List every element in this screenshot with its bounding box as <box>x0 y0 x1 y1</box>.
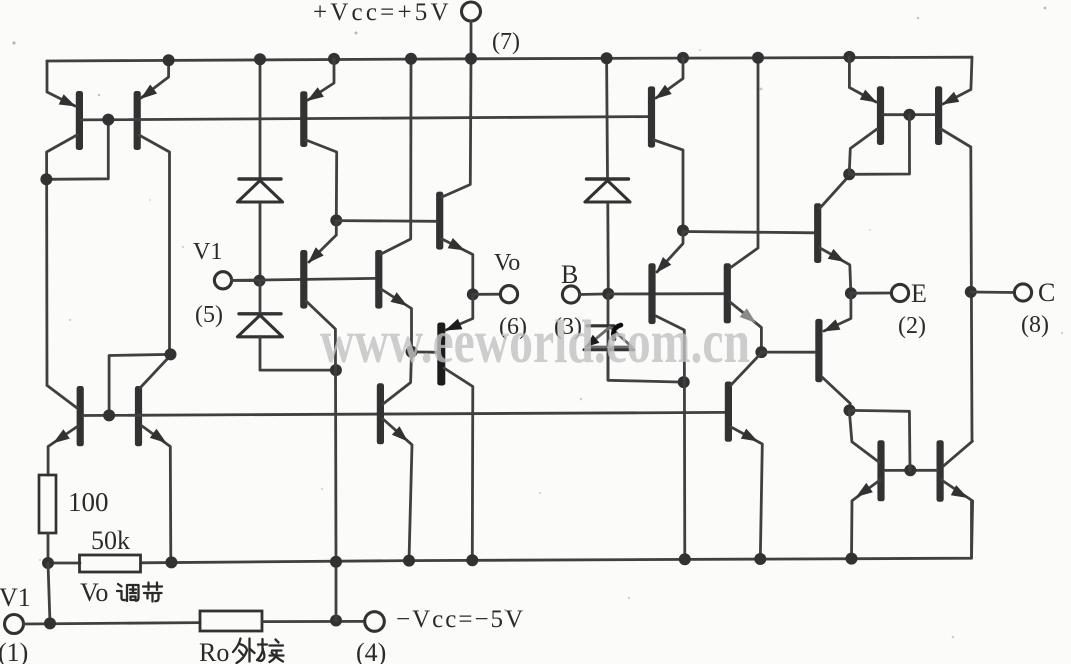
wire mirror base tie to T14 collector node <box>849 410 910 470</box>
wire pin3 to node <box>580 292 609 295</box>
transistor T12 (NPN) bar <box>724 263 731 323</box>
wire T4 emitter <box>142 426 171 562</box>
terminal pin 8 C <box>1014 284 1031 301</box>
svg-text:Vo: Vo <box>80 578 108 607</box>
label jie (node) of Vo adjust <box>143 583 162 591</box>
resistor Ro external <box>200 611 262 631</box>
label jie2 (connect) of Ro external <box>258 639 267 649</box>
transistor T11 (NPN) bar <box>725 382 732 442</box>
wire T5 collector <box>306 140 337 220</box>
junction dot T6 emitter node <box>406 346 418 358</box>
diode D2 <box>239 312 281 315</box>
wire T11 collector to node <box>731 354 761 386</box>
wire T13 base line <box>683 232 814 233</box>
transistor T8 (PNP) bar <box>437 323 445 386</box>
wire T9 collector <box>654 140 683 231</box>
wire T12 emitter <box>730 302 761 352</box>
svg-text:C: C <box>1038 278 1055 307</box>
wire T14 emitter from E <box>824 293 851 331</box>
wire Ro to -Vcc terminal <box>262 620 365 623</box>
node base tie to left column <box>46 120 108 180</box>
svg-text:Vo: Vo <box>494 250 520 276</box>
junction dot T14/T17 collector <box>844 404 856 416</box>
terminal pin 4 -Vcc <box>365 612 385 632</box>
label tiao (adjust) of Vo adjust <box>118 584 122 587</box>
svg-text:B: B <box>561 260 578 289</box>
wire T10 emitter from node <box>657 231 683 272</box>
wire T5b emitter from node <box>309 221 336 262</box>
terminal pin 2 E <box>891 284 908 301</box>
junction dot T8 collector rail <box>466 554 478 566</box>
wire T15 collector <box>849 129 877 174</box>
terminal pin 5 V1 <box>214 272 231 289</box>
junction dot T10 collector rail <box>679 553 691 565</box>
junction dot T15/T16 base <box>903 109 915 121</box>
wire base line T17-T18 <box>885 469 937 472</box>
wire T3 emitter to 100ohm <box>48 426 78 475</box>
junction dot T11 emitter rail <box>754 553 766 565</box>
junction dot 50k right / rail <box>165 556 177 568</box>
wire rail to D3 <box>605 58 609 177</box>
junction dot T4 collector node <box>165 348 177 360</box>
wire mirror base tie <box>849 115 909 175</box>
junction dot D4/T10 collector <box>678 376 690 388</box>
transistor T5 (PNP) bar <box>300 91 307 147</box>
transistor T14 (PNP) bar <box>815 319 822 382</box>
junction dot V1 node <box>254 275 266 287</box>
transistor T5b (PNP) bar <box>300 250 307 309</box>
svg-text:www.eeworld.com.cn: www.eeworld.com.cn <box>320 309 750 376</box>
svg-text:V1: V1 <box>0 583 31 612</box>
wire T8 emitter from Vo <box>446 294 473 330</box>
junction dot -Vcc line <box>330 615 342 627</box>
terminal pin 3 B <box>562 286 579 303</box>
wire T7 base from T5 collector node <box>336 219 436 222</box>
wire T5b collector down to -Vcc rail <box>306 301 336 562</box>
transistor T16 (PNP) bar <box>935 86 942 145</box>
wire T18 collector to C line <box>943 441 972 466</box>
wire NPN bias base line <box>83 412 725 415</box>
wire T6b collector <box>383 352 412 404</box>
terminal pin 1 V1 <box>5 615 24 634</box>
transistor T18 (NPN) bar <box>937 440 944 502</box>
transistor T1 (PNP) bar <box>76 91 83 150</box>
junction dot Vo <box>467 288 479 300</box>
wire T14 base <box>761 351 815 354</box>
wire T8 collector to rail <box>444 368 473 560</box>
svg-text:(4): (4) <box>356 638 386 664</box>
wire D4 to T10 collector column <box>608 350 684 382</box>
wire D1 to V1 node <box>259 204 262 281</box>
wire B node down to D4 <box>607 294 610 380</box>
junction dot rail T5 emitter <box>328 53 340 65</box>
transistor T17 (NPN) bar <box>877 440 884 501</box>
wire -Vcc stub to rail <box>335 562 338 621</box>
wire T12 collector to rail <box>730 58 758 268</box>
wire T6 collector to rail <box>381 59 411 254</box>
wire T9 emitter <box>656 58 683 98</box>
wire T14 collector <box>822 377 850 410</box>
wire T16 collector to C line <box>941 129 972 441</box>
wire V1 node to D2 <box>259 281 262 312</box>
svg-text:100: 100 <box>68 487 109 517</box>
wire T13 emitter to E <box>820 248 851 293</box>
wire T2 collector <box>139 135 170 354</box>
wire V1 input base line to T5b/T6 <box>232 278 376 280</box>
junction dot rail T15 emitter <box>843 51 855 63</box>
junction dot B node <box>602 288 614 300</box>
junction dot C node <box>965 286 977 298</box>
junction dot D2 column <box>330 364 342 376</box>
junction dot T5b collector rail <box>330 556 342 568</box>
transistor T13 (NPN) bar <box>814 203 821 263</box>
wire T1 collector <box>47 135 77 385</box>
wire pin7 to rail <box>470 21 473 59</box>
wire base line T15-T16 <box>884 113 935 116</box>
svg-text:(2): (2) <box>898 313 926 339</box>
wire T6b emitter to rail <box>383 419 412 561</box>
wire T11 emitter to rail <box>731 427 762 559</box>
resistor 50k <box>80 555 141 572</box>
junction dot 100/50k node <box>42 557 54 569</box>
diode D1 <box>239 177 281 180</box>
resistor 100 ohm <box>39 475 56 533</box>
junction dot T6b emitter rail <box>403 555 415 567</box>
transistor T6 (NPN) bar <box>375 250 382 309</box>
svg-text:(5): (5) <box>195 302 223 328</box>
wire C to pin8 <box>971 291 1015 294</box>
svg-text:50k: 50k <box>91 526 130 555</box>
wire pin5 to node <box>232 279 260 282</box>
wire tie T2-collector node to mirror bases <box>109 354 170 415</box>
wire 100 to rail node <box>47 533 50 563</box>
transistor T4 (NPN) bar <box>135 386 142 446</box>
wire T16 emitter from rail corner <box>943 57 972 104</box>
junction dot T17/T18 base <box>904 464 916 476</box>
junction dot E node <box>845 287 857 299</box>
wire E to pin2 <box>851 292 892 295</box>
junction dot base T1/T2 <box>102 114 114 126</box>
wire T2 emitter from rail dot <box>141 60 169 98</box>
wire pin1 to Ro <box>24 623 201 624</box>
wire T7 emitter to Vo <box>442 239 473 294</box>
wire T1 emitter from rail <box>47 61 75 106</box>
junction dot T3/T4 base <box>103 409 115 421</box>
svg-text:E: E <box>911 279 927 308</box>
wire T13 collector <box>820 176 849 208</box>
junction dot T17 emitter rail <box>846 553 858 565</box>
wire V1 pin1 line down <box>48 563 50 623</box>
terminal pin 7 +Vcc <box>462 2 481 21</box>
transistor T3 (NPN) bar <box>77 386 84 446</box>
transistor T10 (PNP) bar <box>648 263 655 324</box>
svg-text:(7): (7) <box>492 29 520 55</box>
svg-text:(1): (1) <box>0 638 28 664</box>
wire T6 emitter <box>381 289 412 352</box>
wire Vo to pin6 <box>473 293 501 296</box>
junction dot T12 emitter node <box>755 346 767 358</box>
terminal pin 6 Vo <box>500 286 517 303</box>
wire -Vcc bottom rail <box>141 502 972 563</box>
wire T17 emitter to rail <box>852 480 881 559</box>
wire T3 collector from left column <box>47 385 77 408</box>
wire T18 emitter to rail corner <box>942 480 973 558</box>
transistor T15 (PNP) bar <box>877 86 884 145</box>
transistor T2 (PNP) bar <box>134 91 141 150</box>
wire D3 to B node <box>606 204 609 294</box>
junction dot rail T12 <box>752 52 764 64</box>
wire B base line to T10/T12 <box>608 292 724 295</box>
wire T8 base <box>412 350 438 353</box>
junction dot T9 collector node <box>677 225 689 237</box>
junction dot pin1 <box>44 617 56 629</box>
svg-text:+Vcc=+5V: +Vcc=+5V <box>313 0 452 26</box>
diode D4 tilted <box>587 324 614 327</box>
svg-text:Ro: Ro <box>199 638 229 664</box>
junction dot rail D1 <box>254 53 266 65</box>
wire +Vcc top rail <box>47 57 972 61</box>
wire T10 collector down to -Vcc rail <box>656 316 685 559</box>
transistor T7 (NPN) bar <box>436 192 443 250</box>
wire D2 to -rail column <box>260 337 336 371</box>
wire T7 collector to rail <box>442 59 471 197</box>
transistor T9 (PNP) bar <box>648 86 655 147</box>
junction dot T5 collector node <box>330 214 342 226</box>
wire T15 emitter <box>849 57 876 102</box>
junction dot rail T2 emitter <box>163 54 175 66</box>
transistor T6b (NPN) bar <box>377 383 384 444</box>
label wai (external) of Ro external <box>233 639 241 653</box>
junction dot rail D3 <box>601 52 613 64</box>
junction dot rail pin7/T7 <box>465 53 477 65</box>
svg-text:(8): (8) <box>1021 312 1049 338</box>
svg-text:V1: V1 <box>193 239 222 265</box>
wire T17 collector <box>849 410 879 462</box>
diode D3 <box>587 177 629 180</box>
wire T5 emitter <box>308 59 334 100</box>
junction dot left column <box>40 173 52 185</box>
junction dot rail T6 <box>405 53 417 65</box>
junction dot T13/T15 collector <box>843 168 855 180</box>
specks <box>355 32 358 35</box>
wire T4 collector <box>140 357 170 389</box>
junction dot rail T9 emitter <box>677 52 689 64</box>
wire base line T1-T2 common bias rail <box>81 117 648 120</box>
wire bottom rail left stub <box>48 562 80 565</box>
wire +Vcc to D1 <box>259 59 262 177</box>
